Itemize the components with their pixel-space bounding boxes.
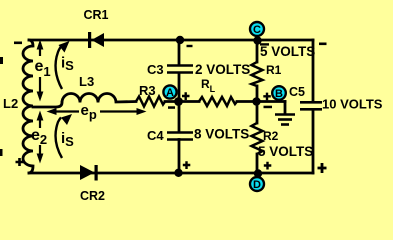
svg-text:10 VOLTS: 10 VOLTS [322, 97, 383, 112]
polarity minus top right [319, 43, 327, 46]
arrow ep dimension [47, 108, 147, 115]
wire right vertical lower (from C5 bottom plate) [312, 110, 315, 174]
edge artifact left lower [0, 149, 3, 156]
arrow i5 bottom [56, 114, 72, 158]
svg-text:B: B [275, 88, 283, 100]
diode CR2 [80, 165, 98, 181]
capacitor C5 [300, 102, 322, 109]
svg-text:C: C [253, 24, 261, 36]
junction node B [252, 97, 260, 105]
junction top C3 [176, 36, 184, 44]
wire R1 branch top [256, 40, 259, 62]
wire C3 branch upper [178, 40, 181, 65]
wire R2 branch top [256, 102, 259, 124]
minus over 5 [260, 43, 269, 45]
polarity plus bottom left [16, 158, 24, 166]
wire node B horizontal [257, 100, 285, 103]
arrow e1 [37, 40, 44, 102]
svg-text:D: D [253, 179, 261, 191]
wire C3 branch lower [178, 73, 181, 102]
svg-text:L2: L2 [3, 96, 18, 111]
svg-text:R1: R1 [266, 63, 282, 77]
junction top R1 [253, 36, 261, 44]
polarity minus top left [14, 42, 22, 45]
node D [250, 174, 264, 192]
arrow e2 [37, 111, 44, 164]
junction bottom C4 [174, 169, 182, 177]
polarity plus R2 bottom [264, 162, 272, 170]
inductor L2 [23, 46, 33, 166]
wire R1 to node B junction [256, 86, 259, 102]
svg-text:C4: C4 [147, 128, 164, 143]
junction node A [174, 97, 183, 106]
capacitor C3 [167, 66, 193, 73]
wire bottom horizontal [29, 172, 313, 175]
node A [163, 85, 176, 99]
wire R3 to junction A [165, 100, 179, 103]
ground [275, 115, 295, 125]
svg-text:R3: R3 [139, 83, 156, 98]
junction bottom D [254, 169, 262, 177]
wire C4 branch lower [178, 140, 181, 174]
edge artifact left upper [0, 57, 3, 64]
polarity minus node B below [264, 106, 273, 109]
svg-text:5 VOLTS: 5 VOLTS [260, 44, 315, 59]
svg-text:2 VOLTS: 2 VOLTS [195, 62, 250, 77]
svg-text:8 VOLTS: 8 VOLTS [194, 127, 249, 142]
wire junction A to RL [179, 100, 199, 103]
svg-text:CR1: CR1 [84, 8, 109, 22]
resistor R2 [252, 123, 263, 154]
wire right vertical upper (to C5 top plate) [312, 40, 315, 102]
wire L2 top bend [29, 40, 33, 46]
diode CR1 [88, 32, 104, 48]
svg-text:C5: C5 [289, 85, 305, 99]
polarity plus C4 bottom [183, 161, 191, 169]
svg-text:C3: C3 [147, 62, 164, 77]
node B [272, 86, 286, 100]
inductor L3 [62, 94, 116, 103]
svg-text:L3: L3 [79, 74, 94, 89]
wire C4 branch upper [178, 102, 181, 133]
svg-text:5 VOLTS: 5 VOLTS [258, 144, 313, 159]
wire L2 bottom bend [29, 166, 33, 173]
wire top horizontal [29, 39, 313, 42]
wire R2 branch bottom [256, 154, 259, 173]
resistor RL [199, 97, 237, 106]
resistor R3 [136, 97, 165, 107]
polarity plus node A [182, 92, 190, 100]
polarity plus node B [263, 93, 271, 101]
polarity minus C4 top [168, 106, 175, 109]
svg-text:A: A [166, 87, 174, 99]
svg-text:CR2: CR2 [80, 189, 105, 203]
wire RL to junction B [237, 100, 257, 103]
wire ground stem [284, 102, 287, 114]
polarity minus C3 top [187, 45, 193, 47]
wire L3 to R3 [116, 100, 136, 103]
polarity plus bottom right [318, 163, 327, 173]
svg-text:R2: R2 [263, 129, 279, 143]
arrow i5 top [56, 41, 70, 89]
svg-text:iS: iS [61, 55, 74, 74]
capacitor C4 [167, 133, 193, 140]
resistor R1 [252, 62, 263, 86]
wire center tap [33, 103, 62, 108]
node C [250, 22, 264, 40]
